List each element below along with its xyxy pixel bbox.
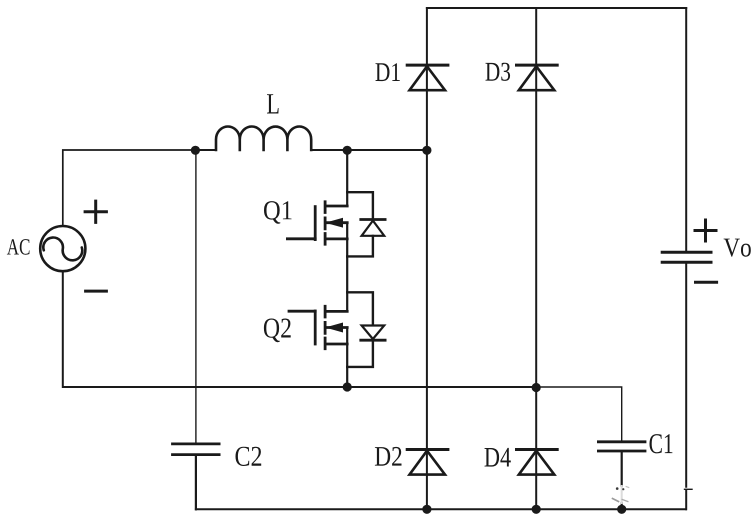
- capacitor C1: [598, 442, 645, 451]
- label Q1: [264, 201, 292, 224]
- Vo plus polarity: [695, 220, 716, 241]
- transistor Q1: [287, 202, 347, 244]
- wire C2 bottom: [195, 456, 197, 509]
- label C2: [236, 447, 262, 466]
- wire D3 D4 vertical leg: [535, 8, 537, 509]
- joint tick artifact: [685, 488, 693, 490]
- Q2 body arrow: [327, 323, 343, 332]
- wire C2 branch vertical: [195, 150, 197, 444]
- node inductor input junction: [191, 146, 200, 155]
- Q2 body diode: [361, 326, 385, 341]
- wire Q1 source to Q2 drain: [346, 223, 348, 312]
- wire right rail lower: [685, 264, 687, 510]
- transistor Q2: [289, 306, 347, 348]
- Vo minus polarity: [696, 281, 717, 284]
- AC plus polarity: [85, 201, 106, 222]
- AC minus polarity: [86, 290, 107, 293]
- Q2 body diode branch wires: [347, 292, 373, 367]
- label D3: [486, 63, 511, 81]
- label D4: [485, 448, 511, 467]
- wire Q1 drain lead: [346, 150, 348, 206]
- node D2 bottom junction: [422, 505, 431, 514]
- wire mid rail thin segment to C1: [536, 387, 622, 441]
- wire top rail: [427, 7, 686, 9]
- wire right rail upper: [685, 8, 687, 251]
- node D1 anode junction: [422, 146, 431, 155]
- diode D1: [407, 65, 448, 90]
- Q1 body arrow: [327, 218, 343, 227]
- watermark remnant over C1 wire: [613, 486, 629, 503]
- inductor L: [216, 126, 311, 150]
- Q1 body diode: [361, 220, 385, 236]
- Q1 body diode branch wires: [347, 192, 373, 256]
- wire AC bottom / mid rail: [63, 271, 536, 387]
- capacitor C2: [173, 444, 220, 455]
- node C1 bottom junction: [617, 505, 626, 514]
- node Q2 source junction: [343, 382, 352, 391]
- wire AC top to node A: [63, 150, 196, 226]
- diode D2: [407, 450, 448, 475]
- label AC: [7, 239, 30, 255]
- node D3 anode junction: [532, 383, 541, 392]
- capacitor Vo output: [662, 252, 711, 262]
- label Q2: [264, 319, 291, 343]
- node D4 bottom junction: [532, 505, 541, 514]
- wire Q2 source to mid rail: [346, 328, 348, 388]
- node Q1 drain junction: [343, 146, 352, 155]
- label D1: [376, 63, 400, 81]
- wire bottom rail: [196, 508, 686, 510]
- label D2: [375, 447, 402, 466]
- label L: [267, 94, 279, 113]
- wire D1 D2 vertical leg: [426, 8, 428, 509]
- AC source V1: [40, 226, 85, 271]
- label C1: [650, 434, 673, 453]
- diode D4: [517, 450, 558, 475]
- diode D3: [517, 65, 558, 90]
- wire C1 bottom: [621, 452, 623, 509]
- label Vo: [724, 239, 751, 257]
- wire node A to inductor: [195, 149, 216, 151]
- wire inductor to D1 leg: [312, 149, 427, 151]
